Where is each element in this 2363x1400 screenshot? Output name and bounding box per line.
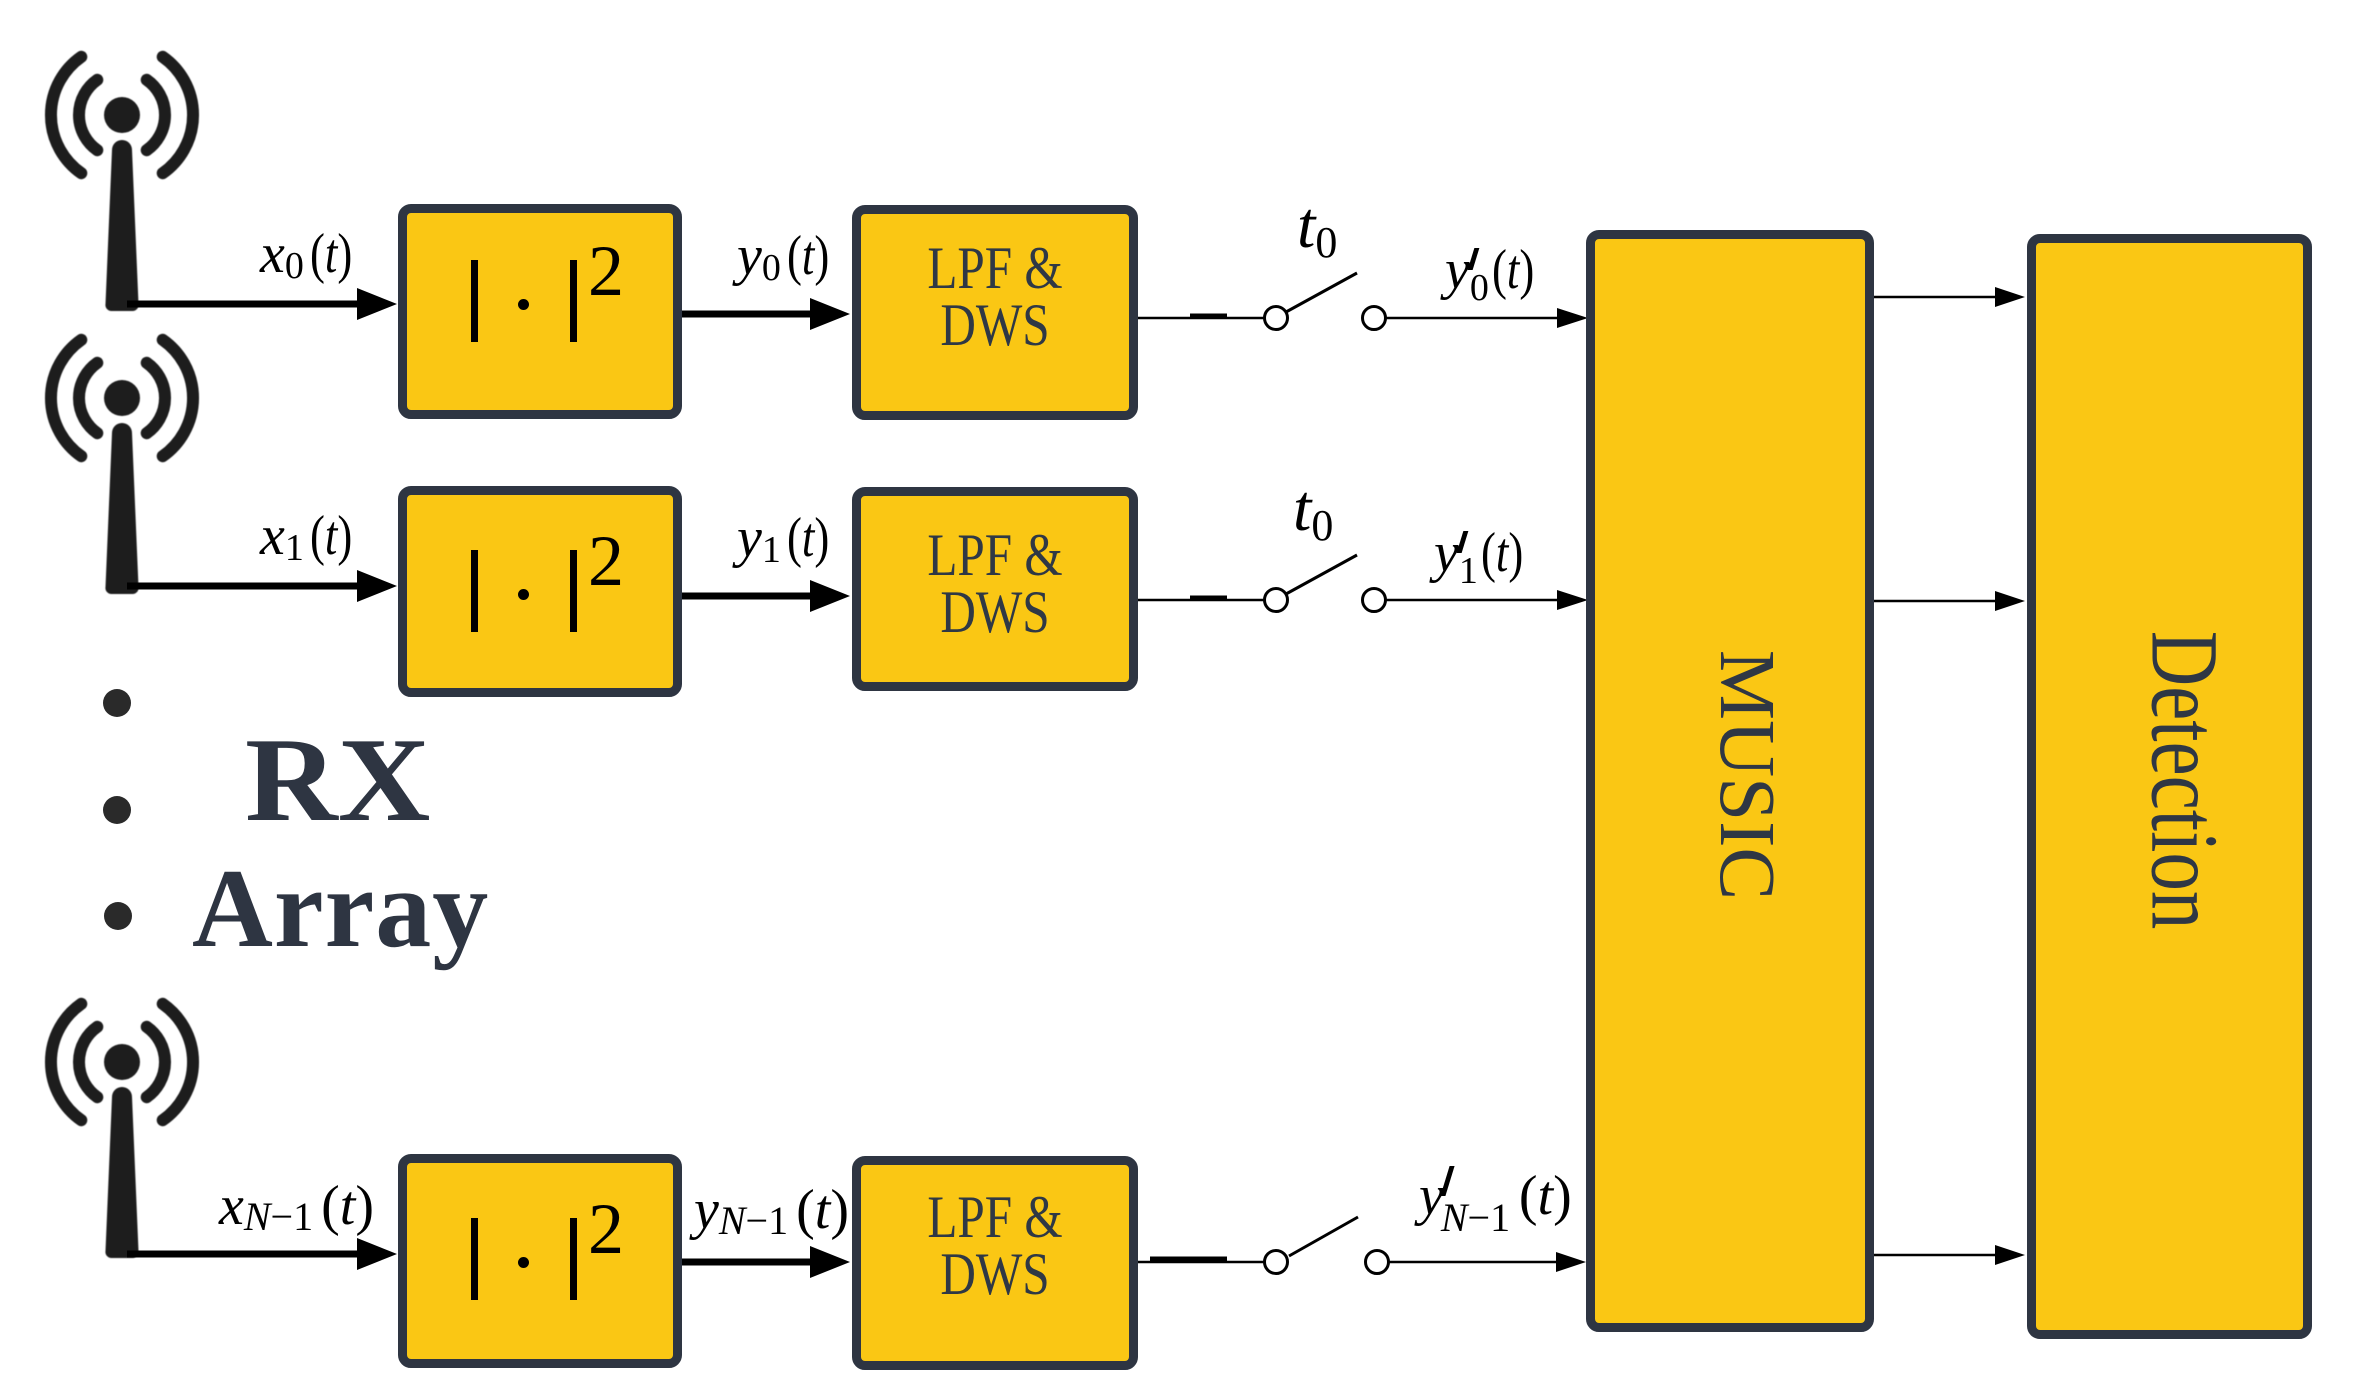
block MUSIC bbox=[1586, 230, 1874, 1332]
wire yN-1(t): squarer to LPF row N-1 bbox=[682, 1246, 850, 1278]
wire y'N-1(t): switch to MUSIC row N-1 bbox=[1389, 1252, 1586, 1272]
node dots of RX array ellipsis bbox=[103, 689, 131, 717]
label y'1(t) bbox=[1434, 521, 1534, 587]
wire LPF output row 2 bbox=[1138, 598, 1265, 600]
block squarer |.|^2 row N-1 bbox=[398, 1154, 682, 1368]
label y'0(t) bbox=[1445, 238, 1545, 304]
block LPF & DWS row 2 bbox=[852, 487, 1138, 691]
wire LPF output row N-1 bbox=[1138, 1259, 1265, 1262]
antenna RX element 1 bbox=[51, 340, 193, 594]
label y0(t) bbox=[737, 224, 840, 288]
antenna RX element 0 bbox=[51, 57, 193, 311]
label t0 switch row 2 bbox=[1293, 471, 1333, 547]
label x0(t) bbox=[260, 222, 363, 286]
label t0 switch row 1 bbox=[1297, 188, 1337, 264]
block Detection bbox=[2027, 234, 2312, 1339]
wire x0(t): antenna 0 to squarer bbox=[127, 288, 397, 320]
block squarer |.|^2 row 2 bbox=[398, 486, 682, 697]
label Array bbox=[192, 845, 489, 974]
wire MUSIC to Detection row N-1 bbox=[1874, 1245, 2025, 1265]
wire xN-1(t): antenna N-1 to squarer bbox=[127, 1238, 397, 1270]
wire y'0(t): switch to MUSIC row 1 bbox=[1386, 308, 1588, 328]
antenna RX element N-1 bbox=[51, 1004, 193, 1258]
switch t0 row 1 bbox=[1265, 273, 1386, 330]
wire MUSIC to Detection row 1 bbox=[1874, 287, 2025, 307]
wire MUSIC to Detection row 2 bbox=[1874, 591, 2025, 611]
wire y1(t): squarer to LPF row 2 bbox=[682, 580, 850, 612]
wire x1(t): antenna 1 to squarer bbox=[127, 570, 397, 602]
wire LPF output row 1 bbox=[1138, 316, 1265, 318]
block squarer |.|^2 row 1 bbox=[398, 204, 682, 419]
label RX bbox=[245, 711, 430, 849]
switch row N-1 bbox=[1265, 1217, 1389, 1274]
label xN-1(t) bbox=[219, 1174, 374, 1238]
switch t0 row 2 bbox=[1265, 555, 1386, 612]
block LPF & DWS row N-1 bbox=[852, 1156, 1138, 1370]
wire y'1(t): switch to MUSIC row 2 bbox=[1386, 590, 1588, 610]
wire y0(t): squarer to LPF row 1 bbox=[682, 298, 850, 330]
label y1(t) bbox=[737, 506, 840, 570]
label yN-1(t) bbox=[694, 1178, 849, 1242]
label y'N-1(t) bbox=[1419, 1164, 1572, 1230]
block LPF & DWS row 1 bbox=[852, 205, 1138, 420]
label x1(t) bbox=[260, 504, 363, 568]
